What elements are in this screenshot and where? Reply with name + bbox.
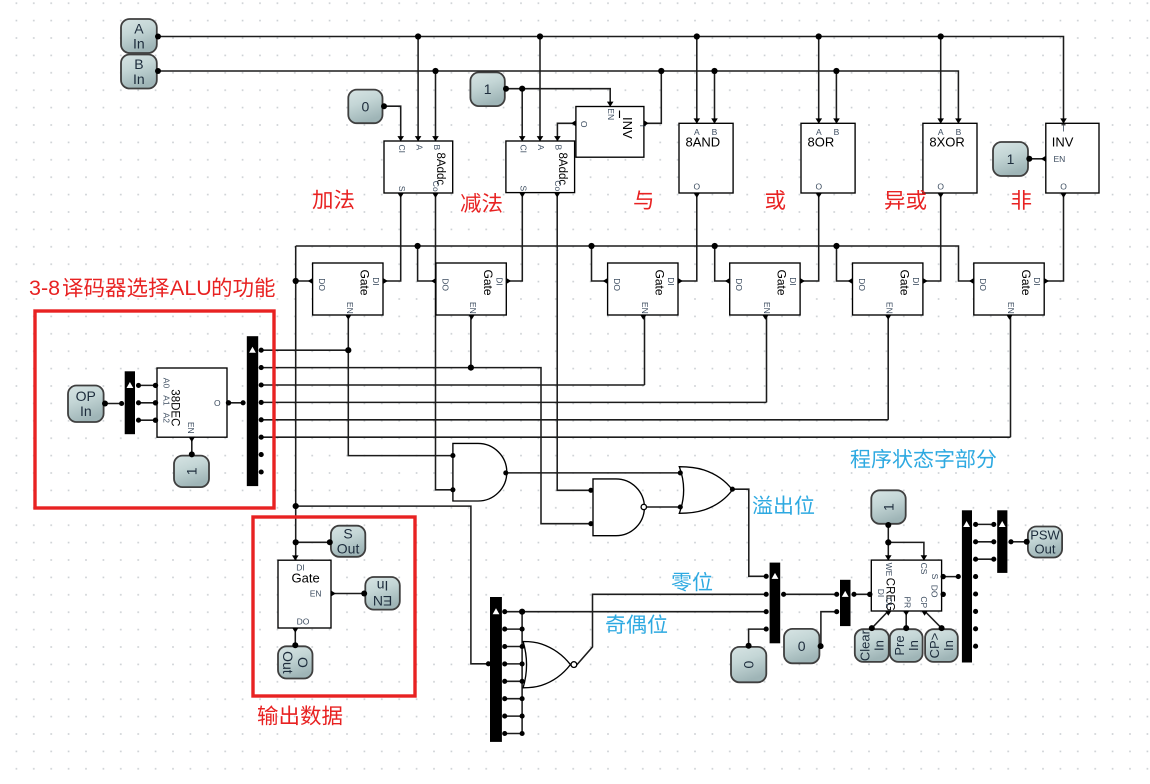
wire branch to adder2 CI [521, 89, 523, 141]
wire 8AND O to gate3 DI [680, 193, 697, 281]
svg-text:A: A [415, 145, 425, 151]
svg-text:EN: EN [1006, 302, 1016, 314]
wire const1 to INV2 EN [1030, 158, 1046, 160]
wire OP In to splitter [105, 403, 121, 405]
wire DO vertical [295, 246, 297, 560]
wire 8OR O to gate4 DI [802, 193, 819, 281]
svg-text:DI: DI [494, 277, 504, 286]
combiner S5 (DI pair) [840, 580, 851, 626]
svg-text:B: B [432, 145, 442, 151]
NOR gate 8-input (zero detect) [523, 642, 570, 688]
logic unit 8OR [801, 123, 855, 193]
svg-text:A: A [536, 145, 546, 151]
svg-text:CI: CI [397, 145, 407, 154]
input pin OP In [68, 386, 104, 423]
svg-text:Gate: Gate [653, 270, 667, 296]
annotation or [766, 190, 785, 210]
gate G4 tri-state Gate [730, 263, 800, 315]
splitter S6 (PSW byte) [962, 510, 972, 662]
svg-text:ALU: ALU [170, 276, 212, 300]
decoder U8 38DEC [157, 368, 227, 437]
svg-text:O: O [579, 121, 589, 128]
OR gate (overflow combine) [679, 467, 732, 514]
svg-text:In: In [941, 640, 956, 651]
wire DO bus [296, 246, 974, 281]
wire CREG CL to Clear In [872, 611, 889, 628]
gate G6 tri-state Gate [974, 263, 1044, 315]
output pin PSW Out [1028, 527, 1062, 558]
wire CREG PR to Pre In [905, 611, 907, 628]
wire const1 to adder2 CI and INV1 EN [506, 89, 610, 107]
wire PSW bit [976, 558, 994, 560]
wire combinerA out [784, 593, 837, 595]
annotation and [634, 190, 652, 209]
svg-text:DO: DO [978, 278, 988, 291]
svg-text:O: O [815, 181, 822, 191]
svg-text:DI: DI [911, 277, 921, 286]
svg-text:In: In [133, 36, 145, 52]
wire A tap [818, 37, 820, 124]
wire zero splitter bit [505, 733, 522, 735]
wire gate1 DO [296, 280, 313, 282]
constant 0 (combinerB) [784, 629, 819, 663]
input pin A In [121, 19, 157, 53]
svg-text:EN: EN [640, 302, 650, 314]
wire gate1 EN and AND input [348, 315, 453, 456]
wire gate6 EN [1010, 315, 1012, 437]
wire splitter to decoder A2 [139, 419, 158, 421]
svg-text:OP: OP [76, 388, 96, 404]
svg-text:PR: PR [902, 596, 912, 608]
wire splitter to decoder A0 [139, 384, 158, 386]
svg-text:In: In [133, 71, 145, 87]
svg-text:CL: CL [884, 597, 894, 608]
svg-text:EN: EN [310, 589, 322, 599]
junction B bus / adder1 B [432, 68, 438, 74]
constant 1 (adder2 CI) [470, 72, 504, 106]
annotation xor [885, 190, 926, 210]
splitter S3 (result byte) [490, 597, 502, 742]
wire zero splitter bit [505, 628, 522, 630]
svg-text:DO: DO [440, 278, 450, 291]
wire zero splitter bit [505, 680, 522, 682]
adder U1 8Addc [384, 141, 453, 193]
gate G1 tri-state Gate [313, 263, 383, 315]
gate G3 tri-state Gate [608, 263, 678, 315]
svg-text:INV: INV [1052, 134, 1074, 149]
gate pin connection dots [450, 453, 455, 458]
svg-text:38DEC: 38DEC [169, 389, 181, 426]
annotation text output data [258, 705, 342, 725]
svg-text:EN: EN [762, 302, 772, 314]
svg-text:A0: A0 [161, 378, 171, 389]
svg-text:DO: DO [734, 278, 744, 291]
svg-text:Gate: Gate [1019, 270, 1033, 296]
svg-text:Out: Out [1035, 542, 1056, 557]
wire CREG CP to CP In [925, 611, 942, 628]
wire gate5 DO [837, 246, 853, 281]
wire decoder line0 add-enable [261, 349, 348, 351]
wire adder2 Co to NAND input [557, 193, 591, 491]
output pin S Out [331, 526, 365, 557]
wire S Out tap [296, 541, 330, 543]
annotation red box decoder [35, 311, 274, 508]
wire gate4 DO [715, 246, 730, 281]
wire DO tap to zero splitter [296, 506, 489, 664]
wire const0a to combinerA [749, 629, 767, 645]
input pin B In [121, 55, 157, 89]
svg-text:INV: INV [620, 117, 635, 139]
svg-text:In: In [377, 578, 389, 594]
svg-text:1: 1 [880, 503, 896, 511]
wire A tap [940, 37, 942, 124]
wire PSW bit [976, 541, 994, 543]
svg-text:In: In [871, 640, 886, 651]
wire gate2 EN [470, 315, 472, 368]
junction line1 / gate2 EN [468, 365, 474, 371]
wire decoder line2 [261, 384, 644, 386]
svg-text:1: 1 [183, 467, 199, 475]
constant 1 (CREG WE/CS) [871, 490, 905, 524]
wire gate3 DO [592, 246, 608, 281]
svg-text:1: 1 [484, 81, 492, 97]
wire decoder line1 sub-enable to NAND [261, 368, 591, 524]
wire B tap [435, 71, 437, 141]
annotation red box output [253, 517, 415, 696]
svg-text:Gate: Gate [292, 571, 320, 586]
wire gate3 EN [644, 315, 646, 385]
wire adder1 S to gate1 DI [385, 193, 401, 281]
svg-text:Pre: Pre [892, 635, 907, 655]
svg-text:0: 0 [741, 661, 757, 669]
svg-text:Out: Out [337, 541, 360, 557]
register U9 CREG [871, 560, 941, 611]
junction A bus / adder1 A [415, 33, 421, 39]
svg-text:EN: EN [468, 302, 478, 314]
wire B bus [159, 71, 959, 123]
wire decoder O to splitter8 [227, 402, 243, 404]
wire decoder EN const [191, 437, 193, 455]
svg-text:DO: DO [930, 585, 940, 598]
svg-text:S: S [343, 526, 352, 542]
junction A bus / adder2 A [537, 33, 543, 39]
svg-text:DI: DI [1032, 277, 1042, 286]
svg-text:CP: CP [919, 596, 929, 608]
wire adder2 S to gate2 DI [507, 193, 522, 281]
svg-text:8AND: 8AND [686, 134, 721, 149]
NOR input pin dots [502, 609, 507, 614]
wire branch to CREG CS [888, 542, 924, 560]
svg-text:3-8: 3-8 [29, 276, 60, 300]
wire A tap [417, 37, 419, 142]
annotation psw [851, 449, 997, 469]
svg-text:DO: DO [297, 617, 310, 627]
junction line0 / gate1 EN [345, 347, 351, 353]
splitter S2 (decoder 8-line) [247, 336, 258, 486]
svg-text:O: O [937, 181, 944, 191]
output pin O Out [278, 646, 313, 678]
wire INV1 input from B bus [644, 71, 661, 123]
junction DO bus / gate2 [415, 243, 421, 249]
wire zero splitter bit [505, 715, 522, 717]
svg-text:DI: DI [666, 277, 676, 286]
svg-text:8OR: 8OR [808, 134, 835, 149]
svg-text:Co: Co [431, 181, 441, 192]
wire INV1 output to adder2 B [557, 123, 576, 141]
wire adder1 Co to AND overflow input [436, 193, 453, 490]
constant 1 (decoder EN) [174, 456, 209, 488]
wire OR out overflow [732, 489, 766, 576]
wire splitter to decoder A1 [139, 402, 158, 404]
wire B tap [714, 71, 716, 123]
wire A tap [539, 37, 541, 142]
svg-text:O: O [693, 181, 700, 191]
wire 8XOR O to gate5 DI [924, 193, 940, 281]
svg-text:DI: DI [371, 277, 381, 286]
adder U2 8Addc [506, 141, 575, 193]
svg-text:Gate: Gate [358, 270, 372, 296]
svg-text:PSW: PSW [1030, 528, 1060, 543]
svg-text:S: S [930, 574, 940, 580]
wire decoder line4 [261, 419, 888, 421]
svg-text:Gate: Gate [898, 270, 912, 296]
svg-text:WE: WE [884, 563, 894, 577]
svg-text:8XOR: 8XOR [929, 134, 964, 149]
svg-text:CS: CS [919, 563, 929, 575]
svg-text:O: O [214, 398, 221, 408]
svg-text:CP>: CP> [927, 633, 942, 659]
wire A bus [159, 37, 1064, 124]
junction DO bus / zero tap [293, 503, 299, 509]
svg-text:Gate: Gate [481, 270, 495, 296]
constant 0 (combinerA) [731, 647, 766, 682]
input pin Pre In [890, 629, 923, 662]
svg-text:0: 0 [798, 638, 806, 654]
svg-text:DO: DO [612, 278, 622, 291]
wire zero splitter bit [505, 698, 522, 700]
svg-text:B: B [134, 56, 143, 72]
junction A bus / 8XOR A [938, 33, 944, 39]
wire gate4 EN [766, 315, 768, 402]
svg-text:EN: EN [1054, 154, 1066, 164]
annotation parity [606, 614, 667, 633]
junction DO bus / gate1 [293, 278, 299, 284]
wire const1 to CREG WE [887, 525, 889, 560]
input pin Clear In [855, 629, 889, 662]
svg-text:EN: EN [606, 108, 616, 120]
input pin EN In [365, 577, 400, 610]
wire NOR rail [521, 612, 523, 734]
svg-text:B: B [553, 145, 563, 151]
constant 0 (adder1 CI) [348, 90, 382, 124]
annotation overflow [753, 495, 814, 514]
wire zero splitter bit [505, 646, 522, 648]
junction DO bus / S Out tap [293, 539, 299, 545]
svg-text:Clear: Clear [857, 629, 872, 661]
junction const1 / CREG WE-CS [885, 539, 891, 545]
wire parity line [522, 611, 766, 613]
svg-text:0: 0 [362, 98, 370, 114]
wire combinerB out to CREG DI [854, 593, 871, 595]
svg-text:I: I [638, 125, 648, 127]
svg-text:In: In [906, 640, 921, 651]
svg-text:Out: Out [280, 651, 296, 674]
svg-text:DI: DI [788, 277, 798, 286]
wire combinerC out to PSW Out [1011, 541, 1026, 543]
wire PSW bit [976, 523, 994, 525]
svg-text:CI: CI [519, 145, 529, 154]
svg-text:O: O [295, 657, 311, 668]
svg-text:EN: EN [186, 422, 196, 434]
gate G7 output Gate vertical [278, 560, 331, 628]
wire NOR out zero line [577, 594, 766, 664]
wire CREG S to PSW splitter [942, 576, 959, 578]
wire zero splitter bit [505, 611, 522, 613]
combiner S4 (PSW bits) [770, 563, 781, 644]
wire A tap [696, 37, 698, 124]
wire decoder line3 [261, 401, 766, 403]
wire const0 to adder1 CI [384, 106, 401, 141]
wire AND out [506, 472, 681, 474]
wire zero splitter bit [505, 663, 522, 665]
wire decoder line5 [261, 436, 1010, 438]
junction A bus / 8AND A [694, 33, 700, 39]
junction DO bus / gate3 [588, 243, 594, 249]
wire const0b to combinerB [821, 612, 837, 646]
AND gate (addition overflow) [453, 443, 507, 501]
svg-text:O: O [1060, 181, 1067, 191]
svg-text:EN: EN [345, 302, 355, 314]
wire out gate DO [294, 628, 296, 645]
svg-text:DO: DO [857, 278, 867, 291]
annotation sub [461, 193, 502, 213]
NAND gate (subtraction overflow) [593, 479, 644, 536]
splitter S1 (OP 3-bit) [125, 371, 135, 434]
svg-text:Gate: Gate [775, 270, 789, 296]
junction parity / NOR rail [519, 609, 525, 615]
junction DO bus / gate4 [712, 243, 718, 249]
svg-text:S: S [397, 186, 407, 192]
input pin CP In [925, 629, 958, 662]
logic unit 8XOR [923, 123, 977, 193]
inverter U7 INV vertical [1046, 123, 1099, 193]
gate G5 tri-state Gate [853, 263, 923, 315]
annotation not [1012, 190, 1031, 210]
logic unit 8AND [679, 123, 733, 193]
junction A bus / 8OR A [816, 33, 822, 39]
wire INV2 O to gate6 DI [1046, 193, 1064, 281]
svg-text:In: In [80, 403, 92, 419]
svg-text:S: S [519, 186, 529, 192]
svg-text:B: B [834, 127, 840, 137]
wire out gate EN [331, 593, 364, 595]
junction const1 / adder2 CI [519, 86, 525, 92]
junction DO bus / gate5 [833, 243, 839, 249]
wire NAND out [647, 506, 681, 508]
combiner S7 (PSW out) [997, 510, 1007, 573]
wire B tap [835, 71, 837, 123]
annotation zero [672, 572, 712, 592]
wire gate2 DO [418, 246, 436, 281]
junction B bus / 8AND B [711, 68, 717, 74]
junction B bus / INV1 I [658, 68, 664, 74]
annotation add [313, 189, 354, 209]
svg-text:Co: Co [553, 180, 563, 191]
gate G2 tri-state Gate [436, 263, 506, 315]
wire gate5 EN [887, 315, 889, 420]
svg-text:DO: DO [317, 278, 327, 291]
svg-text:EN: EN [885, 302, 895, 314]
svg-text:A: A [134, 20, 144, 36]
inverter U3 INV horizontal [576, 107, 644, 158]
svg-text:1: 1 [1007, 151, 1015, 167]
svg-text:EN: EN [373, 593, 392, 609]
constant 1 (INV2 EN) [993, 142, 1028, 176]
junction B bus / 8OR B [833, 68, 839, 74]
